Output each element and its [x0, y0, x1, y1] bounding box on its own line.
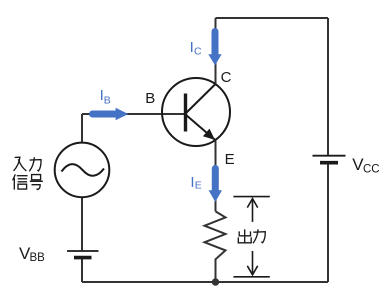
svg-text:B: B — [104, 95, 111, 107]
svg-text:B: B — [145, 90, 155, 107]
svg-text:E: E — [225, 151, 235, 168]
svg-text:CC: CC — [363, 163, 380, 175]
svg-text:BB: BB — [30, 252, 46, 264]
svg-text:C: C — [221, 69, 232, 86]
svg-text:C: C — [194, 46, 202, 58]
svg-text:E: E — [195, 180, 202, 192]
